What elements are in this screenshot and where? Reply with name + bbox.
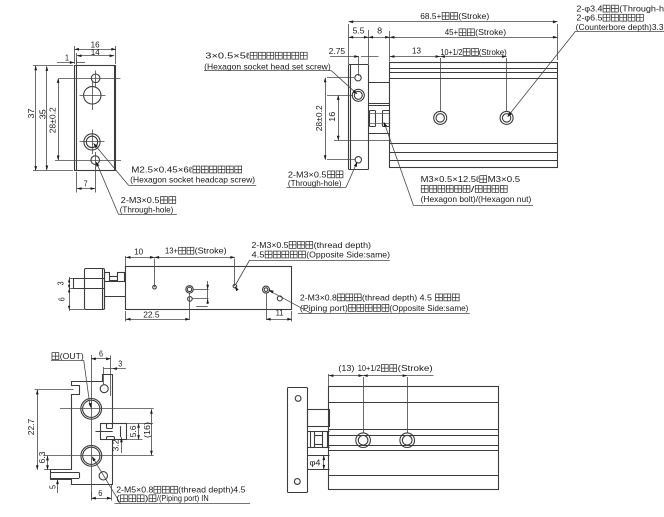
view3 plate top-view xyxy=(85,268,105,309)
svg-text:6: 6 xyxy=(98,489,102,498)
svg-text:φ4: φ4 xyxy=(310,458,321,468)
view2 socket set screw xyxy=(327,89,364,101)
svg-text:(Through-hole): (Through-hole) xyxy=(288,178,342,188)
view1 M3 through-hole bottom xyxy=(55,152,121,169)
view5 dim (13) / 10+half-stroke xyxy=(329,363,434,433)
svg-text:(Hexagon socket headcap screw): (Hexagon socket headcap screw) xyxy=(130,175,255,185)
svg-text:3×0.5×5ℓ: 3×0.5×5ℓ xyxy=(205,51,250,61)
view4 piping port OUT xyxy=(81,398,102,419)
svg-text:2.75: 2.75 xyxy=(329,47,346,56)
svg-text:5.6: 5.6 xyxy=(128,425,138,437)
view3 dim 3 / 6 left xyxy=(55,277,84,311)
svg-text:10: 10 xyxy=(134,247,144,256)
view1 callout hexagon socket headcap screw xyxy=(93,143,256,186)
view2 plate hole bottom xyxy=(327,157,361,163)
svg-text:(Stroke): (Stroke) xyxy=(458,11,489,21)
view3 double piping hole E xyxy=(263,286,270,319)
svg-text:10+1/2: 10+1/2 xyxy=(358,363,381,373)
view5 lower rod phi4 xyxy=(307,456,330,470)
view4 bottom small hole xyxy=(99,472,107,480)
view1 dim 14 xyxy=(77,48,115,64)
svg-text:(13): (13) xyxy=(338,364,354,373)
view4 dim 5 xyxy=(48,480,59,494)
svg-text:8: 8 xyxy=(377,27,383,36)
view2 dim 5.5 / 8 / 45+stroke xyxy=(349,27,558,65)
svg-text:37: 37 xyxy=(26,108,36,118)
view1 dim 7 xyxy=(77,168,96,193)
svg-text:22.5: 22.5 xyxy=(143,310,160,319)
view2 plate hole top xyxy=(355,75,361,81)
view5 cylinder body xyxy=(329,387,499,490)
view4 dim 6 bottom xyxy=(91,485,111,501)
svg-text:(Opposite Side:same): (Opposite Side:same) xyxy=(389,303,468,313)
svg-text:7: 7 xyxy=(84,179,88,188)
view3 rod boss left xyxy=(73,279,104,289)
view4 dim 22.7 xyxy=(26,390,38,470)
view2 top piston rod xyxy=(369,83,390,106)
view1 callout 2-M3 through-hole xyxy=(96,161,177,214)
svg-text:5.5: 5.5 xyxy=(353,27,366,36)
svg-text:13+: 13+ xyxy=(165,246,178,256)
view2 callout hexagon bolt nut xyxy=(384,122,533,206)
view2 rod nuts block xyxy=(369,111,390,134)
view2 callout 2-M3 through-hole xyxy=(287,162,358,188)
svg-text:35: 35 xyxy=(37,109,47,119)
svg-text:28±0.2: 28±0.2 xyxy=(314,105,324,131)
svg-text:(thread depth) 4.5: (thread depth) 4.5 xyxy=(362,292,432,302)
view2 cylinder body xyxy=(390,63,558,168)
svg-text:(Hexagon socket head set screw: (Hexagon socket head set screw) xyxy=(204,61,331,71)
svg-text:(16): (16) xyxy=(142,422,152,438)
svg-text:4.5: 4.5 xyxy=(252,249,265,259)
view1 end-plate outline xyxy=(75,66,116,171)
view3 double hole B xyxy=(186,286,193,293)
svg-text:M2.5×0.45×6ℓ: M2.5×0.45×6ℓ xyxy=(131,164,192,174)
view1 dim 37 xyxy=(26,66,73,171)
view5 plate hole bottom xyxy=(294,479,300,485)
view2 dim 28±0.2 xyxy=(314,78,354,160)
svg-text:(Hexagon bolt)/(Hexagon nut): (Hexagon bolt)/(Hexagon nut) xyxy=(421,194,532,204)
view3 callout 2-M3x0.5 thread depth xyxy=(235,240,390,291)
view5 top rod xyxy=(308,410,330,427)
view1 dim 35 xyxy=(37,66,48,170)
svg-text:(thread depth): (thread depth) xyxy=(314,240,372,250)
view2 counterbore hole 1 xyxy=(434,111,447,124)
svg-text:11: 11 xyxy=(276,308,285,317)
view5 plate hole top xyxy=(295,396,301,402)
view4 dim 3 top xyxy=(104,359,126,384)
view5 counterbore hole 1 xyxy=(356,433,371,448)
view4 dim 6.3 xyxy=(37,451,71,470)
svg-text:M3×0.5: M3×0.5 xyxy=(488,174,521,184)
svg-text:14: 14 xyxy=(91,48,101,57)
svg-text:(Stroke): (Stroke) xyxy=(479,47,507,57)
svg-text:6: 6 xyxy=(99,350,103,359)
view1 counterbore hole xyxy=(80,82,106,111)
view4 dim 5.6 xyxy=(125,423,153,440)
svg-text:10+1/2: 10+1/2 xyxy=(441,47,463,57)
view3 callout 2-M3x0.8 piping port xyxy=(269,290,470,314)
view2 dim 16 xyxy=(327,95,390,140)
view3 rod pieces xyxy=(105,273,126,310)
view4 outline xyxy=(51,375,113,485)
view5 counterbore hole 2 xyxy=(400,433,415,448)
view2 end-plate side xyxy=(349,65,369,170)
view1 dim 28±0.2 xyxy=(47,78,59,160)
view3 small dim between holes B C xyxy=(192,281,209,307)
svg-text:3.2: 3.2 xyxy=(111,439,121,451)
svg-text:6.3: 6.3 xyxy=(37,451,47,463)
view5 rod nuts block xyxy=(307,432,330,448)
view3 hole A xyxy=(153,259,157,290)
view5 end-plate xyxy=(288,388,308,493)
svg-text:(Stroke): (Stroke) xyxy=(398,363,433,373)
svg-text:(Through-h: (Through-h xyxy=(619,4,664,14)
view2 counterbore hole 2 xyxy=(500,111,513,124)
view1 dim 16 xyxy=(74,40,116,64)
svg-text:2-M3×0.5: 2-M3×0.5 xyxy=(121,195,160,205)
view4 dim (16) xyxy=(142,409,153,455)
view4 port centerlines xyxy=(44,361,154,497)
svg-text:3: 3 xyxy=(55,281,65,285)
svg-text:M3×0.5×12.5ℓ: M3×0.5×12.5ℓ xyxy=(421,174,480,184)
view4 slot centerline ext xyxy=(35,389,74,391)
svg-text:5: 5 xyxy=(48,485,58,489)
view2 dim 68.5+stroke xyxy=(349,11,558,64)
view3 dim 22.5 xyxy=(126,310,190,321)
view4 dim 3.2 xyxy=(111,437,123,453)
view5 dim phi4 xyxy=(310,456,326,470)
view3 dim 11 xyxy=(266,308,292,321)
svg-text:2-M3×0.8: 2-M3×0.8 xyxy=(300,292,337,302)
view4 switch-rail tongue xyxy=(96,424,127,440)
svg-text:3: 3 xyxy=(118,359,122,368)
view4 label OUT xyxy=(51,351,92,408)
view4 top small hole xyxy=(100,385,108,393)
svg-text:6: 6 xyxy=(56,297,66,301)
svg-text:13: 13 xyxy=(412,47,422,56)
svg-text:(OUT): (OUT) xyxy=(60,351,84,361)
view3 hole C xyxy=(188,294,193,320)
svg-text:16: 16 xyxy=(327,111,337,121)
view4 bottom-left tab details xyxy=(50,473,79,479)
view1 hexagon socket headcap screw xyxy=(80,130,105,155)
svg-text:(Opposite Side:same): (Opposite Side:same) xyxy=(306,249,390,259)
svg-text:68.5+: 68.5+ xyxy=(420,11,441,21)
svg-text:): ) xyxy=(145,493,149,503)
svg-text:1: 1 xyxy=(65,54,69,63)
view4 piping port IN xyxy=(81,445,102,466)
svg-text:(Through-hole): (Through-hole) xyxy=(120,204,174,214)
view3 cylinder body top-view xyxy=(126,267,292,310)
svg-text:(Stroke): (Stroke) xyxy=(195,246,227,256)
view3 thread hole D xyxy=(233,259,237,288)
svg-text:(Counterbore depth)3.3: (Counterbore depth)3.3 xyxy=(576,22,664,32)
svg-text:2-M3×0.5: 2-M3×0.5 xyxy=(252,240,289,250)
view1 dim 1 xyxy=(57,54,85,66)
view2 dim 13 / 10+half-stroke xyxy=(390,47,507,112)
view2 callout set screw xyxy=(204,51,358,95)
svg-text:22.7: 22.7 xyxy=(26,418,36,435)
view4 callout 2-M5 piping port IN xyxy=(92,456,250,504)
view4 dim 6 top xyxy=(91,350,111,396)
view3 hole F xyxy=(277,296,282,301)
svg-text:/(Piping port) IN: /(Piping port) IN xyxy=(157,493,209,503)
view1 M3 through-hole top xyxy=(59,71,120,87)
view2 callout counterbore holes xyxy=(507,4,664,118)
view3 dim 10 / 13+stroke xyxy=(126,246,235,266)
svg-text:45+: 45+ xyxy=(445,27,459,37)
svg-text:(Stroke): (Stroke) xyxy=(475,27,506,37)
view2 dim 2.75 xyxy=(329,47,379,76)
svg-text:28±0.2: 28±0.2 xyxy=(47,107,57,133)
